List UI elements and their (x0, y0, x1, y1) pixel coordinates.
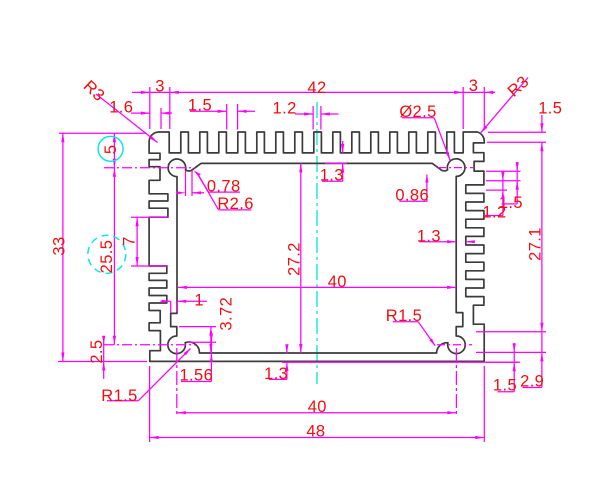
dim 1.5 top (190, 110, 227, 112)
svg-text:3: 3 (155, 77, 165, 95)
leader R1.5 bottom-left (107, 400, 138, 402)
svg-text:3.72: 3.72 (218, 297, 236, 331)
svg-text:0.86: 0.86 (395, 187, 429, 205)
leader R3 top-left (96, 94, 158, 143)
svg-text:1.56: 1.56 (179, 366, 213, 384)
dim 1.5 bottom-right (513, 343, 515, 392)
svg-text:1: 1 (194, 292, 204, 310)
dim 40 bottom (177, 412, 457, 414)
dim 25.5 + dashed balloon (113, 168, 115, 345)
svg-text:27.1: 27.1 (526, 227, 544, 261)
dim 5 + balloon (113, 133, 115, 168)
svg-text:40: 40 (328, 273, 347, 291)
dim 2.9 bottom-right (541, 332, 543, 353)
svg-text:1.3: 1.3 (264, 365, 288, 383)
dim 1.6 (131, 112, 150, 114)
dim 1.2 top (295, 113, 313, 115)
svg-text:R1.5: R1.5 (101, 387, 137, 405)
svg-text:7: 7 (120, 236, 138, 246)
svg-text:1.2: 1.2 (482, 203, 506, 221)
svg-text:1.6: 1.6 (109, 98, 133, 116)
svg-text:40: 40 (308, 398, 327, 416)
centerline TL boss (104, 167, 195, 169)
dim 1.5 / 1.2 right wall fins (486, 170, 521, 172)
svg-text:R1.5: R1.5 (386, 307, 422, 325)
leader dia 2.5 (402, 117, 434, 119)
svg-text:42: 42 (307, 79, 326, 97)
dim 3 left top (132, 91, 495, 93)
leader R1.5 bottom-right (393, 321, 419, 323)
dim 33 left (62, 133, 64, 361)
svg-text:2.5: 2.5 (88, 340, 106, 364)
dim 1.3 top-center web (342, 141, 344, 153)
svg-text:1.5: 1.5 (188, 97, 212, 115)
svg-text:2.9: 2.9 (520, 373, 544, 391)
profile outer outline (149, 132, 484, 361)
centerline BL boss (104, 344, 195, 346)
svg-text:1.3: 1.3 (320, 166, 344, 184)
profile inner outline (168, 159, 465, 354)
svg-text:33: 33 (50, 236, 68, 255)
svg-text:1.5: 1.5 (493, 376, 517, 394)
svg-text:1.3: 1.3 (417, 227, 441, 245)
svg-text:25.5: 25.5 (98, 240, 116, 274)
dim 0.78 slot (185, 171, 187, 197)
svg-text:R2.6: R2.6 (217, 195, 253, 213)
dim 48 bottom (150, 437, 485, 439)
dim 27.2 interior (300, 163, 302, 353)
dim 42 top (462, 87, 464, 129)
centerline BR boss (437, 344, 472, 346)
svg-text:Ø2.5: Ø2.5 (399, 103, 436, 121)
svg-text:1.5: 1.5 (538, 100, 562, 118)
dim 1.5 top-right corner (488, 131, 546, 133)
dim 1 groove (161, 300, 171, 302)
dim 3.72 (210, 327, 212, 353)
dim 2.5 bottom-left (103, 336, 105, 379)
dim 1.56 (210, 334, 212, 382)
svg-text:1.2: 1.2 (273, 100, 297, 118)
svg-text:5: 5 (102, 145, 120, 155)
dim 27.1 right (541, 142, 543, 331)
leader R3 top-right (480, 78, 528, 134)
dim 40 interior (178, 286, 456, 288)
dim 1.3 right wall (419, 241, 456, 243)
svg-text:0.78: 0.78 (207, 178, 241, 196)
leader 0.86 (399, 200, 427, 202)
dim 7 left block (136, 217, 138, 266)
leader R2.6 (194, 170, 201, 176)
centerline TR boss (438, 167, 473, 169)
svg-text:3: 3 (469, 77, 479, 95)
dim 1.3 bottom plate (286, 345, 288, 354)
svg-text:27.2: 27.2 (286, 242, 304, 276)
centerline vertical (316, 102, 318, 384)
svg-text:48: 48 (306, 423, 325, 441)
